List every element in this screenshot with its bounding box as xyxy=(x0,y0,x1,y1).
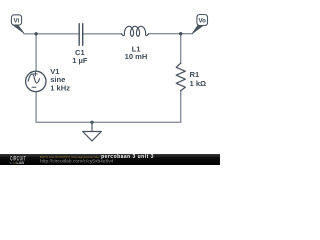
footer logo CIRCUIT LAB xyxy=(10,156,26,162)
wire right rail top xyxy=(180,34,182,64)
footer caption line 2 xyxy=(40,159,114,164)
voltage source V1 xyxy=(26,67,71,93)
wire bottom right segment xyxy=(92,91,181,123)
wire coil to Vo xyxy=(150,33,193,35)
ground xyxy=(83,122,102,141)
svg-text:R1: R1 xyxy=(190,70,200,79)
footer bar xyxy=(0,154,220,166)
footer caption line 1 xyxy=(40,155,154,159)
wire top-left segment xyxy=(24,33,79,35)
svg-text:10 mH: 10 mH xyxy=(125,52,148,61)
wire left rail xyxy=(35,34,37,72)
node B junction dot xyxy=(179,32,182,35)
inductor L1 xyxy=(121,26,148,61)
resistor R1 xyxy=(176,63,206,90)
svg-text:1 kΩ: 1 kΩ xyxy=(190,79,207,88)
svg-text:Vo: Vo xyxy=(198,17,206,24)
node A junction dot xyxy=(34,32,37,35)
svg-text:Vi: Vi xyxy=(14,17,20,24)
node Vi label xyxy=(11,15,24,33)
node Vo label xyxy=(192,15,207,34)
wire cap to coil xyxy=(83,33,122,35)
svg-text:1 µF: 1 µF xyxy=(72,56,88,65)
capacitor C1 xyxy=(72,24,88,65)
wire V1 to bottom xyxy=(36,92,92,123)
node ground junction dot xyxy=(90,121,93,124)
svg-text:1 kHz: 1 kHz xyxy=(50,84,70,93)
